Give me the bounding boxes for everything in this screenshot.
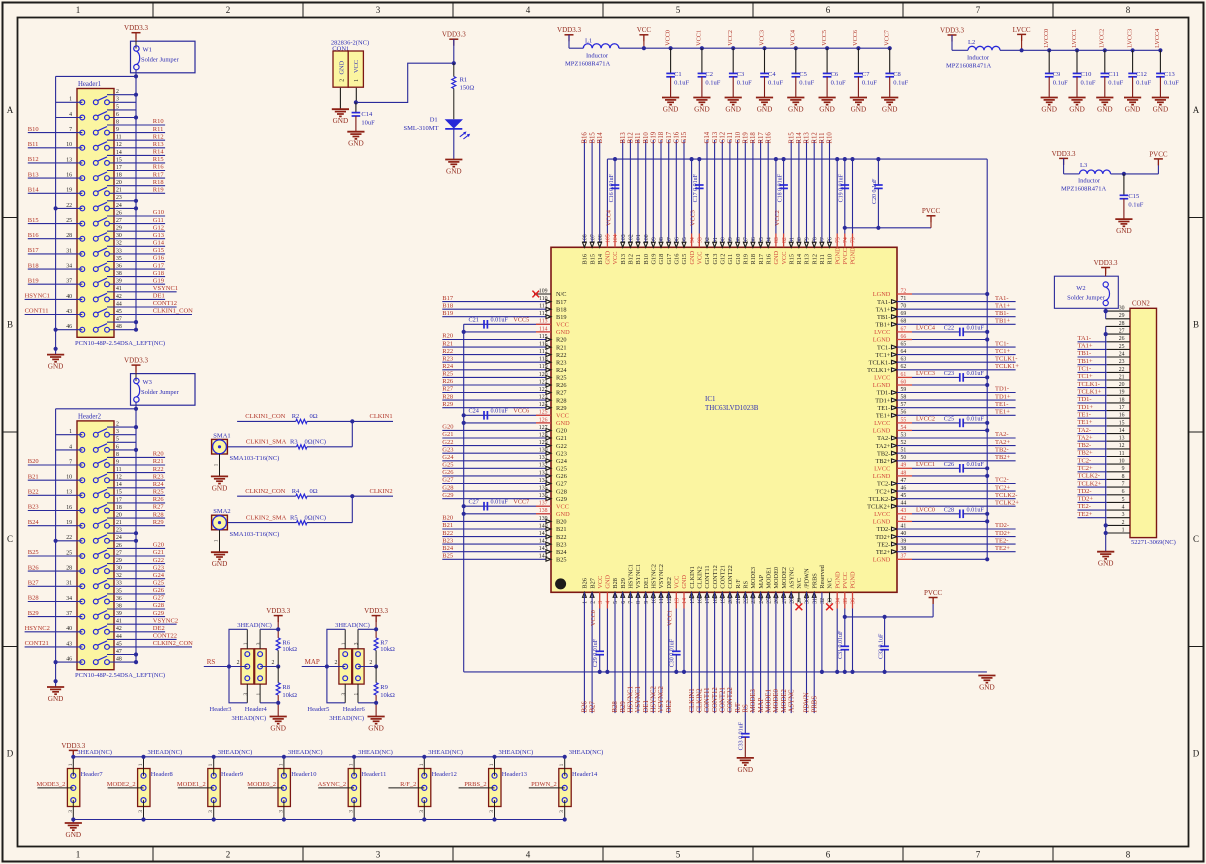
svg-text:41: 41 — [116, 619, 122, 625]
svg-text:GND: GND — [48, 363, 64, 371]
svg-text:LVCC0: LVCC0 — [916, 507, 935, 514]
svg-text:3HEAD(NC): 3HEAD(NC) — [335, 622, 370, 629]
svg-text:IC1: IC1 — [705, 395, 716, 403]
svg-text:39: 39 — [116, 611, 122, 617]
svg-text:2: 2 — [369, 660, 372, 666]
svg-text:LGND: LGND — [873, 291, 891, 298]
svg-text:CLKIN2: CLKIN2 — [370, 488, 393, 495]
svg-text:15: 15 — [690, 598, 696, 604]
svg-text:20: 20 — [728, 598, 734, 604]
svg-text:Header10: Header10 — [291, 771, 316, 778]
svg-text:VDD3.3: VDD3.3 — [940, 26, 964, 34]
svg-text:G22: G22 — [556, 443, 567, 450]
svg-text:1: 1 — [69, 429, 72, 435]
svg-text:PRBS_2: PRBS_2 — [464, 781, 486, 788]
svg-text:15: 15 — [116, 490, 122, 496]
svg-text:R2: R2 — [292, 413, 300, 420]
svg-text:33: 33 — [116, 581, 122, 587]
svg-text:7: 7 — [629, 601, 635, 604]
svg-text:TE2+: TE2+ — [876, 549, 891, 556]
svg-text:PCN10-48P-2.54DSA_LEFT(NC): PCN10-48P-2.54DSA_LEFT(NC) — [75, 672, 165, 679]
svg-text:R3: R3 — [290, 439, 298, 446]
svg-text:105: 105 — [606, 234, 612, 243]
svg-text:GND: GND — [556, 420, 570, 427]
svg-text:R29: R29 — [442, 401, 453, 408]
svg-text:13: 13 — [675, 598, 681, 604]
svg-text:1: 1 — [69, 97, 72, 103]
svg-text:LGND: LGND — [873, 519, 891, 526]
svg-text:GND: GND — [738, 766, 754, 774]
svg-text:C9: C9 — [1053, 71, 1061, 78]
svg-text:2: 2 — [226, 850, 231, 860]
svg-text:VCC6: VCC6 — [852, 30, 859, 46]
svg-text:36: 36 — [116, 264, 122, 270]
svg-text:GND: GND — [446, 168, 462, 176]
svg-text:B12: B12 — [628, 132, 635, 144]
svg-text:G13: G13 — [712, 254, 719, 265]
svg-text:R22: R22 — [153, 466, 164, 473]
svg-text:TE1-: TE1- — [1078, 411, 1091, 418]
svg-text:7: 7 — [69, 459, 72, 465]
svg-text:G19: G19 — [153, 277, 164, 284]
svg-text:TC1+: TC1+ — [876, 352, 891, 359]
svg-text:R29: R29 — [556, 405, 567, 412]
svg-text:26: 26 — [116, 543, 122, 549]
svg-text:26: 26 — [1119, 336, 1125, 342]
svg-text:8: 8 — [116, 119, 119, 125]
svg-text:LGND: LGND — [873, 557, 891, 564]
svg-text:N/C: N/C — [796, 578, 803, 589]
svg-text:Header8: Header8 — [151, 771, 173, 778]
svg-text:3HEAD(NC): 3HEAD(NC) — [148, 749, 183, 756]
svg-text:G18: G18 — [658, 131, 665, 143]
svg-text:10: 10 — [66, 475, 72, 481]
svg-text:CLKIN1_CON: CLKIN1_CON — [245, 413, 285, 420]
svg-text:R11: R11 — [153, 126, 164, 133]
svg-text:7: 7 — [69, 127, 72, 133]
svg-text:TB1-: TB1- — [877, 314, 890, 321]
svg-text:6: 6 — [826, 5, 831, 15]
svg-text:GND: GND — [348, 140, 364, 148]
svg-text:14: 14 — [682, 598, 688, 604]
svg-text:G12: G12 — [720, 254, 727, 265]
svg-text:R13: R13 — [153, 141, 164, 148]
svg-text:HSYNC1: HSYNC1 — [628, 564, 635, 589]
svg-text:G11: G11 — [727, 132, 734, 143]
svg-text:G23: G23 — [556, 450, 567, 457]
svg-text:C27: C27 — [469, 499, 479, 506]
svg-text:B11: B11 — [635, 254, 642, 264]
svg-text:A: A — [1193, 105, 1200, 115]
svg-text:TA2+: TA2+ — [1078, 434, 1093, 441]
svg-text:B12: B12 — [28, 156, 39, 163]
svg-text:10uF: 10uF — [361, 119, 375, 126]
svg-text:37: 37 — [66, 279, 72, 285]
svg-text:TC1-: TC1- — [1078, 366, 1092, 373]
svg-text:43: 43 — [66, 641, 72, 647]
svg-text:0.01uF: 0.01uF — [967, 416, 985, 423]
svg-text:25: 25 — [66, 218, 72, 224]
svg-text:94: 94 — [690, 237, 696, 243]
svg-text:G21: G21 — [442, 431, 453, 438]
svg-text:TB1+: TB1+ — [876, 322, 891, 329]
svg-text:100: 100 — [644, 234, 650, 243]
svg-text:LVCC4: LVCC4 — [1154, 29, 1161, 48]
svg-text:R20: R20 — [442, 333, 453, 340]
svg-text:VCC5: VCC5 — [821, 30, 828, 46]
svg-text:0Ω: 0Ω — [310, 413, 318, 420]
svg-text:VCC2: VCC2 — [727, 30, 734, 46]
svg-text:2: 2 — [590, 601, 596, 604]
svg-text:B20: B20 — [28, 458, 39, 465]
svg-text:47: 47 — [116, 649, 122, 655]
svg-text:B18: B18 — [556, 306, 567, 313]
svg-text:36: 36 — [116, 596, 122, 602]
svg-text:G18: G18 — [658, 254, 665, 265]
svg-text:G26: G26 — [442, 469, 454, 476]
svg-text:C23: C23 — [944, 370, 954, 377]
svg-text:VCC7: VCC7 — [884, 30, 891, 46]
svg-text:G10: G10 — [735, 131, 742, 143]
svg-text:GND: GND — [556, 511, 570, 518]
svg-text:SMA1: SMA1 — [213, 432, 230, 439]
svg-text:17: 17 — [705, 598, 711, 604]
svg-text:TA2-: TA2- — [995, 431, 1009, 438]
svg-text:B15: B15 — [589, 132, 596, 144]
svg-text:MODE1: MODE1 — [765, 689, 772, 712]
svg-text:32: 32 — [820, 598, 826, 604]
svg-text:B14: B14 — [597, 253, 604, 264]
svg-text:C7: C7 — [862, 71, 870, 78]
svg-text:37: 37 — [66, 611, 72, 617]
svg-text:MODE3_2: MODE3_2 — [37, 781, 66, 788]
svg-text:R26: R26 — [556, 382, 567, 389]
svg-text:2: 2 — [116, 422, 119, 428]
svg-text:R24: R24 — [153, 481, 165, 488]
svg-text:TD2+: TD2+ — [875, 534, 891, 541]
svg-text:27: 27 — [116, 218, 122, 224]
svg-text:B: B — [7, 320, 13, 330]
svg-text:R22: R22 — [442, 348, 453, 355]
svg-text:G13: G13 — [153, 232, 164, 239]
svg-text:21: 21 — [116, 520, 122, 526]
svg-text:B14: B14 — [28, 187, 40, 194]
svg-text:G15: G15 — [681, 254, 688, 265]
svg-text:13: 13 — [66, 490, 72, 496]
svg-text:C: C — [7, 534, 13, 544]
svg-text:G29: G29 — [153, 610, 164, 617]
svg-text:B23: B23 — [442, 537, 453, 544]
svg-text:R15: R15 — [788, 132, 795, 144]
svg-text:G19: G19 — [651, 131, 658, 143]
svg-text:B25: B25 — [28, 549, 39, 556]
svg-text:TC1+: TC1+ — [1078, 373, 1094, 380]
svg-text:10: 10 — [66, 142, 72, 148]
svg-text:TE2-: TE2- — [995, 537, 1008, 544]
svg-text:B21: B21 — [28, 473, 39, 480]
svg-text:3HEAD(NC): 3HEAD(NC) — [232, 715, 267, 722]
svg-text:TA2+: TA2+ — [876, 443, 891, 450]
svg-text:TD1+: TD1+ — [875, 397, 891, 404]
svg-text:B26: B26 — [28, 564, 40, 571]
svg-text:27: 27 — [116, 550, 122, 556]
svg-text:TE2+: TE2+ — [995, 545, 1010, 552]
svg-text:12: 12 — [116, 475, 122, 481]
svg-text:1: 1 — [76, 850, 81, 860]
svg-text:TE1+: TE1+ — [876, 413, 891, 420]
svg-text:44: 44 — [116, 301, 122, 307]
svg-text:C10: C10 — [1081, 71, 1092, 78]
svg-text:VCC: VCC — [556, 322, 569, 329]
svg-text:GND: GND — [694, 106, 710, 114]
svg-text:VSYNC2: VSYNC2 — [658, 564, 665, 589]
svg-text:9: 9 — [116, 127, 119, 133]
svg-text:HSYNC2: HSYNC2 — [651, 564, 658, 589]
svg-text:CLKIN1: CLKIN1 — [370, 413, 393, 420]
svg-text:R10: R10 — [827, 132, 834, 144]
svg-text:Header3: Header3 — [210, 706, 232, 713]
svg-text:R11: R11 — [819, 254, 826, 264]
svg-text:B24: B24 — [28, 519, 40, 526]
svg-text:46: 46 — [66, 324, 72, 330]
svg-text:TCLK1-: TCLK1- — [995, 355, 1017, 362]
svg-text:0.1uF: 0.1uF — [799, 79, 814, 86]
svg-text:LVCC0: LVCC0 — [1043, 29, 1050, 48]
svg-text:MAP: MAP — [758, 698, 765, 713]
svg-text:R17: R17 — [758, 254, 765, 265]
svg-text:G16: G16 — [674, 254, 681, 265]
svg-text:108: 108 — [583, 234, 589, 243]
svg-text:B11: B11 — [635, 132, 642, 143]
svg-text:R26: R26 — [153, 496, 165, 503]
svg-text:MODE1: MODE1 — [765, 567, 772, 589]
svg-text:G28: G28 — [442, 484, 453, 491]
svg-text:R19: R19 — [153, 187, 164, 194]
svg-text:C20 0.1uF: C20 0.1uF — [872, 178, 878, 204]
svg-text:R28: R28 — [153, 511, 164, 518]
svg-text:2: 2 — [272, 660, 275, 666]
svg-text:G25: G25 — [442, 462, 453, 469]
svg-text:PVCC: PVCC — [922, 207, 941, 215]
svg-text:C31 0.01uF: C31 0.01uF — [838, 630, 844, 659]
svg-text:R16: R16 — [765, 254, 772, 265]
svg-text:GND: GND — [663, 106, 679, 114]
svg-text:R13: R13 — [804, 254, 811, 265]
svg-text:VDD3.3: VDD3.3 — [557, 26, 581, 34]
svg-text:CONT22: CONT22 — [727, 687, 734, 713]
svg-text:Solder Jumper: Solder Jumper — [141, 389, 180, 396]
svg-text:TD2+: TD2+ — [995, 530, 1011, 537]
svg-text:0.1uF: 0.1uF — [705, 79, 720, 86]
svg-text:W1: W1 — [143, 47, 152, 54]
svg-text:C28: C28 — [944, 507, 954, 514]
svg-text:SML-310MT: SML-310MT — [404, 125, 439, 132]
svg-text:102: 102 — [629, 234, 635, 243]
svg-text:2: 2 — [226, 5, 231, 15]
svg-text:B24: B24 — [442, 545, 454, 552]
svg-text:3: 3 — [376, 5, 381, 15]
svg-text:3: 3 — [559, 810, 565, 813]
svg-text:GND: GND — [1041, 106, 1057, 114]
svg-text:B10: B10 — [643, 254, 650, 265]
svg-text:TCLK1+: TCLK1+ — [867, 367, 891, 374]
svg-text:G21: G21 — [153, 549, 164, 556]
svg-text:R15: R15 — [153, 156, 164, 163]
svg-text:Solder Jumper: Solder Jumper — [141, 57, 180, 64]
svg-text:R29: R29 — [153, 519, 164, 526]
svg-text:DE2: DE2 — [666, 577, 673, 589]
svg-text:27: 27 — [782, 598, 788, 604]
svg-text:103: 103 — [621, 234, 627, 243]
svg-text:TD1+: TD1+ — [995, 393, 1011, 400]
svg-text:HSYNC1: HSYNC1 — [628, 686, 635, 712]
svg-text:VCC: VCC — [637, 26, 652, 34]
svg-text:DE1: DE1 — [643, 700, 650, 712]
svg-text:3HEAD(NC): 3HEAD(NC) — [358, 749, 393, 756]
svg-text:C32 0.1uF: C32 0.1uF — [878, 633, 884, 659]
svg-text:0.1uF: 0.1uF — [1053, 79, 1068, 86]
svg-text:26: 26 — [774, 598, 780, 604]
svg-text:5: 5 — [116, 104, 119, 110]
svg-text:N/C: N/C — [556, 291, 567, 298]
svg-text:18: 18 — [116, 505, 122, 511]
svg-text:VDD3.3: VDD3.3 — [266, 607, 290, 615]
svg-text:PGND: PGND — [834, 247, 841, 265]
svg-text:Header2: Header2 — [78, 413, 102, 420]
svg-text:GND: GND — [773, 250, 780, 264]
svg-text:MODE0: MODE0 — [773, 567, 780, 589]
svg-text:VCC4: VCC4 — [605, 210, 612, 226]
svg-text:B27: B27 — [589, 578, 596, 589]
svg-text:48: 48 — [116, 324, 122, 330]
svg-text:83: 83 — [774, 237, 780, 243]
svg-text:HSYNC2: HSYNC2 — [25, 625, 50, 632]
svg-text:TD2-: TD2- — [1078, 488, 1092, 495]
svg-text:TE1+: TE1+ — [995, 409, 1010, 416]
svg-text:LVCC: LVCC — [874, 420, 890, 427]
svg-text:VCC: VCC — [597, 576, 604, 589]
svg-text:8: 8 — [116, 452, 119, 458]
svg-text:16: 16 — [66, 173, 72, 179]
svg-text:LVCC3: LVCC3 — [916, 370, 935, 377]
svg-text:R24: R24 — [442, 363, 454, 370]
svg-text:TA1+: TA1+ — [995, 302, 1010, 309]
svg-text:G23: G23 — [442, 446, 453, 453]
svg-text:B20: B20 — [556, 519, 567, 526]
svg-text:B18: B18 — [442, 302, 453, 309]
svg-text:TCLK2-: TCLK2- — [1078, 473, 1100, 480]
svg-text:/PDWN: /PDWN — [804, 568, 811, 589]
svg-text:R24: R24 — [556, 367, 567, 374]
svg-text:1: 1 — [341, 642, 347, 645]
svg-text:4: 4 — [69, 444, 72, 450]
svg-text:TE1-: TE1- — [995, 401, 1008, 408]
svg-text:PDWN_2: PDWN_2 — [531, 781, 557, 788]
svg-text:R9: R9 — [380, 684, 388, 691]
svg-text:TCLK2+: TCLK2+ — [995, 499, 1019, 506]
svg-text:C26: C26 — [944, 461, 954, 468]
svg-text:CONT12: CONT12 — [712, 565, 719, 588]
svg-text:TA1-: TA1- — [995, 295, 1009, 302]
svg-text:Header6: Header6 — [343, 706, 366, 713]
svg-text:CLKIN2: CLKIN2 — [697, 566, 704, 588]
svg-text:HSYNC1: HSYNC1 — [25, 293, 50, 300]
svg-text:PDWN: PDWN — [804, 692, 811, 712]
svg-text:CONT22: CONT22 — [153, 633, 177, 640]
svg-text:C33 0.01uF: C33 0.01uF — [739, 721, 745, 750]
svg-text:3HEAD(NC): 3HEAD(NC) — [499, 749, 534, 756]
svg-text:41: 41 — [116, 286, 122, 292]
svg-text:VSYNC2: VSYNC2 — [658, 685, 665, 712]
svg-text:Inductor: Inductor — [967, 55, 990, 62]
svg-text:R14: R14 — [796, 253, 803, 264]
svg-text:10: 10 — [652, 598, 658, 604]
svg-text:TE1-: TE1- — [877, 405, 890, 412]
svg-text:GND: GND — [368, 725, 384, 733]
svg-text:0Ω(NC): 0Ω(NC) — [305, 439, 326, 446]
svg-text:VDD3.3: VDD3.3 — [442, 31, 466, 39]
svg-text:3: 3 — [256, 642, 262, 645]
svg-text:VCC: VCC — [556, 413, 569, 420]
svg-text:29: 29 — [116, 226, 122, 232]
svg-text:TCLK2-: TCLK2- — [995, 492, 1017, 499]
svg-text:28: 28 — [66, 566, 72, 572]
svg-text:TD1-: TD1- — [877, 390, 891, 397]
svg-text:38: 38 — [116, 271, 122, 277]
svg-text:9: 9 — [116, 459, 119, 465]
svg-text:TC2-: TC2- — [1078, 457, 1092, 464]
svg-text:CONT11: CONT11 — [25, 308, 49, 315]
svg-text:Reserved: Reserved — [819, 564, 826, 588]
svg-text:TC1-: TC1- — [995, 340, 1009, 347]
svg-text:CON2: CON2 — [1132, 301, 1150, 308]
svg-text:B22: B22 — [442, 530, 453, 537]
svg-text:PCN10-48P-2.54DSA_LEFT(NC): PCN10-48P-2.54DSA_LEFT(NC) — [75, 340, 165, 347]
svg-text:C12: C12 — [1136, 71, 1147, 78]
svg-text:26: 26 — [116, 210, 122, 216]
svg-text:35: 35 — [116, 588, 122, 594]
svg-text:VDD3.3: VDD3.3 — [124, 24, 148, 32]
svg-text:B27: B27 — [589, 701, 596, 713]
svg-text:L2: L2 — [968, 39, 975, 46]
svg-text:A: A — [7, 105, 14, 115]
svg-text:R27: R27 — [153, 504, 165, 511]
svg-text:MODE0_2: MODE0_2 — [247, 781, 276, 788]
svg-text:2: 2 — [116, 89, 119, 95]
svg-text:R21: R21 — [153, 458, 164, 465]
svg-text:TB2-: TB2- — [877, 450, 890, 457]
svg-text:11: 11 — [116, 467, 122, 473]
svg-text:0.01uF: 0.01uF — [967, 461, 985, 468]
svg-text:C1: C1 — [674, 71, 682, 78]
svg-text:VDD3.3: VDD3.3 — [364, 607, 388, 615]
svg-text:36: 36 — [851, 598, 857, 604]
svg-text:0.01uF: 0.01uF — [967, 370, 985, 377]
svg-text:TE2+: TE2+ — [1078, 511, 1093, 518]
svg-text:LGND: LGND — [873, 337, 891, 344]
svg-text:B26: B26 — [582, 701, 589, 713]
svg-text:B28: B28 — [612, 701, 619, 713]
svg-text:Header4: Header4 — [245, 706, 268, 713]
svg-text:3: 3 — [68, 810, 74, 813]
svg-text:6: 6 — [1122, 489, 1125, 495]
svg-text:1: 1 — [489, 763, 495, 766]
svg-text:HSYNC2: HSYNC2 — [651, 685, 658, 712]
svg-text:20: 20 — [116, 513, 122, 519]
svg-text:B25: B25 — [556, 557, 567, 564]
svg-text:CLKIN1: CLKIN1 — [689, 688, 696, 712]
svg-text:GND: GND — [757, 106, 773, 114]
